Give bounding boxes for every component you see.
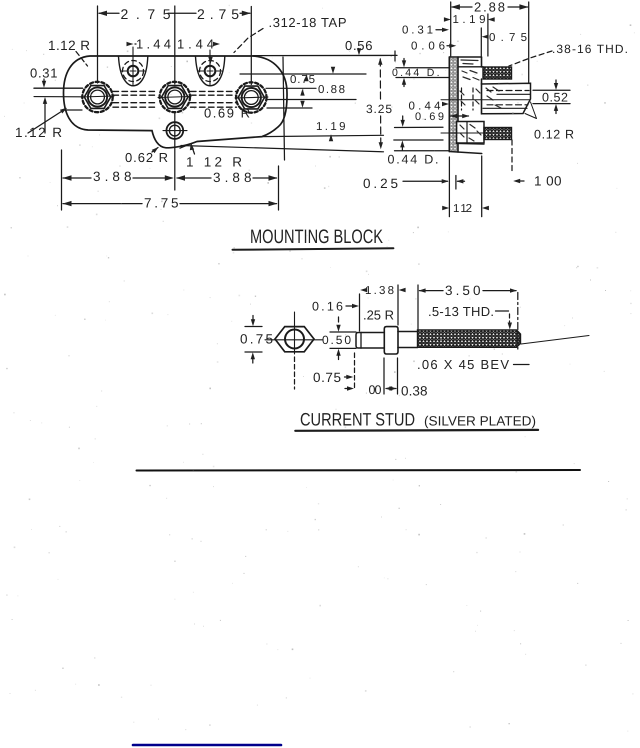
svg-text:3.88: 3.88 (93, 169, 132, 184)
svg-text:0.44 D.: 0.44 D. (392, 67, 440, 79)
svg-text:.06 X 45 BEV: .06 X 45 BEV (417, 357, 509, 372)
svg-text:MOUNTING BLOCK: MOUNTING BLOCK (250, 226, 383, 248)
svg-text:0.88: 0.88 (318, 84, 345, 96)
svg-text:2.88: 2.88 (474, 0, 505, 15)
svg-text:7.75: 7.75 (144, 196, 179, 211)
svg-text:0.69 R: 0.69 R (204, 106, 250, 121)
svg-text:3.50: 3.50 (445, 283, 481, 298)
svg-text:0.31: 0.31 (30, 66, 58, 81)
svg-text:2.75: 2.75 (121, 6, 171, 22)
svg-text:0.38: 0.38 (401, 384, 428, 399)
svg-text:(SILVER PLATED): (SILVER PLATED) (424, 414, 536, 429)
svg-text:0.50: 0.50 (322, 333, 351, 347)
svg-text:0.56: 0.56 (345, 38, 373, 53)
svg-text:0.06: 0.06 (411, 41, 445, 53)
svg-text:1 12: 1 12 (453, 203, 472, 215)
svg-text:CURRENT STUD: CURRENT STUD (300, 410, 415, 430)
svg-text:.312-18 TAP: .312-18 TAP (269, 15, 347, 30)
svg-text:.5-13 THD.: .5-13 THD. (428, 304, 494, 319)
svg-text:0.75: 0.75 (313, 370, 341, 385)
svg-text:0.16: 0.16 (312, 300, 343, 314)
svg-text:1.12 R: 1.12 R (48, 38, 90, 53)
svg-text:0.69: 0.69 (415, 111, 444, 123)
svg-text:1.44: 1.44 (177, 37, 214, 52)
svg-text:2.75: 2.75 (197, 6, 239, 22)
svg-text:0.75: 0.75 (240, 332, 273, 347)
svg-text:.25 R: .25 R (363, 308, 394, 323)
svg-text:1.44: 1.44 (136, 37, 171, 52)
svg-text:0.62 R: 0.62 R (125, 150, 168, 165)
svg-text:3.88: 3.88 (213, 170, 252, 185)
svg-text:1.19: 1.19 (453, 14, 486, 26)
svg-text:00: 00 (369, 383, 382, 397)
svg-text:0.31: 0.31 (402, 25, 433, 37)
svg-text:1 12 R: 1 12 R (186, 155, 242, 170)
svg-text:0.75: 0.75 (290, 74, 315, 86)
svg-text:0.52: 0.52 (542, 91, 568, 105)
svg-text:1.38: 1.38 (365, 285, 394, 297)
svg-text:0.44 D.: 0.44 D. (388, 153, 439, 167)
svg-text:1.19: 1.19 (316, 121, 346, 133)
svg-text:1 00: 1 00 (534, 174, 562, 189)
svg-text:0.75: 0.75 (489, 32, 527, 44)
svg-text:0.25: 0.25 (363, 176, 398, 191)
svg-text:.38-16 THD.: .38-16 THD. (552, 42, 628, 56)
svg-text:1.12 R: 1.12 R (15, 125, 62, 140)
svg-text:0.12 R: 0.12 R (534, 128, 574, 142)
svg-text:3.25: 3.25 (366, 102, 392, 116)
